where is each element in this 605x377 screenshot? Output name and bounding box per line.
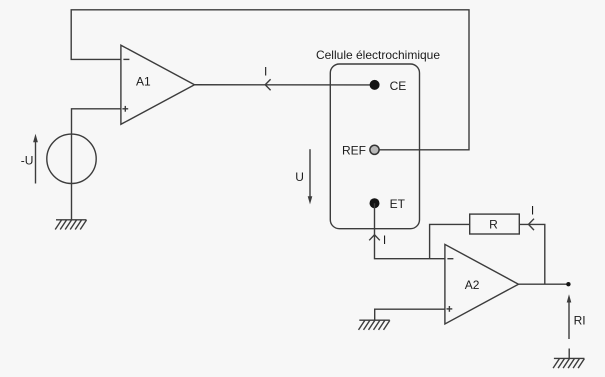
resistor R (470, 214, 520, 234)
electrochemical cell box (330, 64, 419, 229)
arrow -U (voltage annotation) (33, 134, 38, 184)
wire: A2 non-inverting input to ground (375, 309, 445, 320)
wire: node ground stub (568, 349, 570, 359)
arrow I (current through R) (529, 219, 535, 230)
wire: feedback junction up to resistor R (430, 224, 470, 258)
wire: A1 inverting input / top rail / down to REF (71, 10, 469, 150)
wire: A1 output to CE (195, 84, 375, 86)
svg-text:RI: RI (574, 314, 586, 328)
terminal CE (370, 80, 380, 90)
terminal REF (370, 145, 379, 154)
voltage source circle (47, 134, 96, 183)
svg-text:R: R (489, 218, 498, 232)
arrow I (current out of ET wire) (369, 235, 380, 241)
ground (below voltage source) (55, 220, 86, 230)
wire: ET down to A2 inverting input (375, 203, 445, 259)
svg-text:I: I (383, 233, 386, 247)
svg-text:CE: CE (390, 79, 407, 93)
wire: R right side to feedback vertical to A2 output (519, 224, 545, 284)
svg-text:I: I (531, 204, 534, 218)
node (output dot) (566, 282, 570, 286)
svg-text:A2: A2 (465, 278, 480, 292)
svg-text:U: U (295, 170, 304, 184)
svg-text:REF: REF (342, 144, 366, 158)
svg-text:Cellule électrochimique: Cellule électrochimique (316, 48, 440, 62)
svg-text:-U: -U (21, 154, 34, 168)
arrow U (cell voltage annotation) (308, 149, 313, 204)
svg-text:A1: A1 (136, 74, 151, 88)
wire: A1 non-inverting input down to voltage source and ground (72, 109, 122, 220)
arrow I (current into A1 output wire) (265, 79, 270, 90)
svg-text:I: I (264, 64, 267, 78)
arrow RI (output voltage annotation) (567, 294, 572, 339)
wire: A2 output to node (519, 283, 569, 285)
ground (output reference) (553, 358, 584, 368)
terminal ET (370, 198, 380, 208)
ground (A2 non-inverting input) (359, 320, 390, 330)
op-amp A1 (121, 45, 195, 124)
op-amp A2 (445, 244, 519, 324)
svg-text:ET: ET (390, 197, 406, 211)
